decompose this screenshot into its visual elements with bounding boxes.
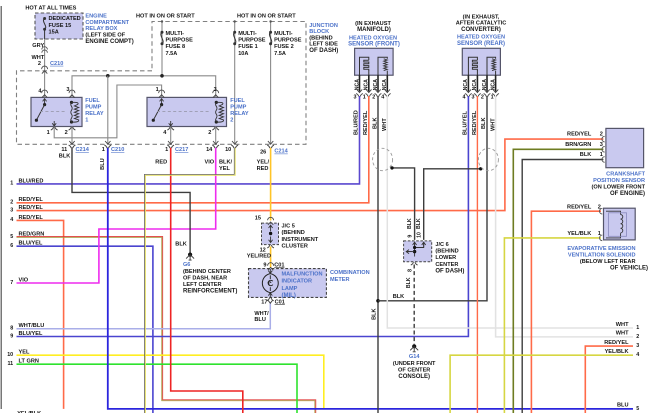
relay 2 coil — [215, 101, 218, 104]
wire front shield drain to J/C6 pin 9 — [392, 168, 415, 240]
svg-text:BLU: BLU — [100, 158, 106, 170]
svg-text:BLU/RED: BLU/RED — [19, 178, 44, 184]
O2 stub wire x=359.5 — [359, 75, 361, 91]
svg-text:FUSE 15: FUSE 15 — [49, 23, 72, 29]
J/C 5 connectors and internals — [268, 217, 274, 220]
svg-text:RED: RED — [155, 160, 167, 166]
svg-text:RED/YEL: RED/YEL — [567, 132, 592, 138]
svg-text:INSTRUMENT: INSTRUMENT — [282, 237, 319, 243]
svg-text:(LEFT SIDE OF: (LEFT SIDE OF — [85, 33, 125, 39]
svg-text:YEL/BLK: YEL/BLK — [605, 349, 629, 355]
svg-text:BLU/RED: BLU/RED — [354, 110, 360, 135]
svg-text:4: 4 — [463, 94, 466, 100]
wire fuse 8 drop — [161, 22, 163, 76]
svg-text:2: 2 — [208, 130, 211, 136]
engine compartment relay box enclosure (dashed) — [35, 13, 83, 39]
svg-text:3: 3 — [66, 87, 69, 93]
evap solenoid coil symbol — [606, 211, 621, 214]
svg-text:CONVERTER): CONVERTER) — [461, 27, 501, 33]
svg-text:(UNDER FRONT: (UNDER FRONT — [393, 361, 436, 367]
svg-text:BLK: BLK — [393, 294, 405, 300]
MIL connector pin17 — [267, 298, 274, 301]
svg-text:RED: RED — [257, 166, 269, 172]
svg-text:INDICATOR: INDICATOR — [282, 279, 313, 285]
svg-text:OF VEHICLE): OF VEHICLE) — [610, 265, 648, 271]
svg-text:(BEHIND: (BEHIND — [309, 35, 332, 41]
wire YEL/RED J/C5 to MIL — [270, 247, 272, 268]
svg-text:1: 1 — [363, 94, 366, 100]
top dashed entries — [161, 20, 163, 22]
svg-text:J/C 5: J/C 5 — [282, 223, 295, 229]
svg-text:PURPOSE: PURPOSE — [238, 38, 266, 44]
svg-text:(BELOW LEFT REAR: (BELOW LEFT REAR — [580, 259, 636, 265]
svg-text:COMPARTMENT: COMPARTMENT — [85, 20, 129, 26]
ground G6 — [188, 253, 192, 257]
wire rear shield drain to J/C6 pin 10 — [424, 169, 481, 240]
front O2 heater element and resistor — [360, 57, 369, 75]
svg-text:ENGINE: ENGINE — [85, 14, 107, 20]
svg-text:NCA: NCA — [364, 79, 370, 90]
svg-text:PUMP: PUMP — [230, 104, 246, 110]
svg-text:1: 1 — [47, 130, 50, 136]
page left border — [0, 6, 2, 409]
svg-text:YEL/BLK: YEL/BLK — [567, 231, 591, 237]
wire BLU/YEL pcm pin6 — [17, 246, 153, 413]
svg-text:NCA: NCA — [354, 79, 360, 90]
wire WHT/BLU pcm pin8 to MIL — [17, 302, 271, 329]
wire YEL/BLK evap solenoid pin1 — [504, 238, 601, 413]
svg-text:VENTILATION SOLENOID: VENTILATION SOLENOID — [568, 252, 636, 258]
wire RED/YEL to pcm right pin3 — [585, 346, 633, 413]
svg-text:3: 3 — [214, 87, 217, 93]
svg-text:YEL: YEL — [219, 166, 230, 172]
svg-text:1: 1 — [491, 94, 494, 100]
svg-text:(ON LOWER FRONT: (ON LOWER FRONT — [592, 184, 646, 190]
svg-text:8: 8 — [408, 269, 414, 272]
svg-text:ENGINE COMPT): ENGINE COMPT) — [85, 39, 133, 45]
svg-text:4: 4 — [381, 94, 384, 100]
svg-text:10A: 10A — [238, 51, 248, 57]
svg-text:7.5A: 7.5A — [166, 51, 178, 57]
wire dedicated fuse to relay 1 pin 4 — [44, 39, 46, 97]
svg-text:LEFT SIDE: LEFT SIDE — [309, 42, 338, 48]
MIL lamp symbol — [262, 274, 278, 293]
svg-text:C01: C01 — [275, 299, 285, 305]
svg-text:RED/YEL: RED/YEL — [567, 204, 592, 210]
svg-text:BLK: BLK — [580, 152, 592, 158]
svg-text:GRY: GRY — [32, 43, 44, 49]
svg-text:LAMP: LAMP — [282, 286, 298, 292]
wire relay2 pin2 drop VIO — [215, 127, 217, 145]
fuel pump relay 2 box — [147, 97, 227, 126]
svg-text:C214: C214 — [274, 149, 288, 155]
svg-text:EVAPORATIVE EMISSION: EVAPORATIVE EMISSION — [567, 246, 635, 252]
wire RED/YEL pcm pin2 to front O2 heater — [17, 96, 369, 203]
wire relay1 pin2 drop to C214 — [71, 127, 73, 145]
svg-text:RELAY: RELAY — [230, 111, 249, 117]
svg-text:26: 26 — [260, 149, 266, 155]
svg-text:3: 3 — [636, 343, 639, 349]
wire RED/GRN pcm pin5 (two-tone) — [17, 237, 316, 413]
evaporative emission ventilation solenoid box — [604, 208, 636, 240]
svg-text:C210: C210 — [50, 61, 63, 67]
svg-text:YEL/RED: YEL/RED — [247, 254, 271, 260]
svg-text:OF DASH): OF DASH) — [435, 269, 464, 275]
wire YEL pcm pin10 — [17, 355, 324, 409]
svg-text:BLU: BLU — [617, 403, 629, 409]
svg-text:1: 1 — [102, 147, 105, 153]
svg-text:REINFORCEMENT): REINFORCEMENT) — [183, 289, 237, 295]
svg-text:POSITION SENSOR: POSITION SENSOR — [593, 178, 645, 184]
O2 stub wire x=378.0 — [377, 75, 379, 91]
svg-text:RELAY: RELAY — [85, 111, 104, 117]
relay 1 switch — [43, 99, 47, 105]
svg-text:BLOCK: BLOCK — [309, 29, 329, 35]
coil supply rail y=75.8 — [72, 76, 216, 98]
svg-text:FUEL: FUEL — [230, 98, 245, 104]
svg-text:15A: 15A — [49, 30, 59, 36]
wire BLU fuel pump relay control C210 — [108, 148, 633, 409]
fuse 8 symbol — [161, 31, 164, 34]
svg-text:BLK: BLK — [416, 218, 422, 229]
svg-text:OF ENGINE): OF ENGINE) — [610, 191, 645, 197]
svg-text:2: 2 — [600, 132, 603, 138]
svg-text:SENSOR (REAR): SENSOR (REAR) — [457, 41, 505, 47]
svg-text:10: 10 — [7, 352, 13, 358]
svg-text:FUSE 8: FUSE 8 — [166, 44, 186, 50]
svg-text:YEL/: YEL/ — [257, 160, 270, 166]
svg-text:OF DASH): OF DASH) — [309, 48, 338, 54]
svg-text:CRANKSHAFT: CRANKSHAFT — [606, 171, 645, 177]
junction connector J/C 6 box — [404, 241, 432, 262]
svg-text:HOT IN ON OR START: HOT IN ON OR START — [136, 14, 195, 20]
svg-text:JUNCTION: JUNCTION — [309, 23, 338, 29]
svg-text:BLU/YEL: BLU/YEL — [19, 241, 44, 247]
evap solenoid pin connectors — [600, 208, 603, 214]
ground G14 — [412, 344, 416, 348]
svg-text:HEATED OXYGEN: HEATED OXYGEN — [457, 35, 505, 41]
wire BLU/YEL pcm pin9 to rear O2 signal — [17, 96, 469, 337]
svg-text:OF CENTER: OF CENTER — [398, 368, 430, 374]
svg-text:5: 5 — [636, 406, 639, 412]
svg-text:C214: C214 — [76, 147, 90, 153]
svg-text:3: 3 — [600, 142, 603, 148]
svg-text:9: 9 — [263, 262, 266, 268]
wire BRN/GRN crank sensor pin3 — [513, 149, 603, 413]
MIL connector pin9 — [268, 263, 274, 266]
wire rail to C210 BLU drop — [107, 76, 109, 145]
O2 stub wire x=477.4 — [476, 75, 478, 91]
svg-text:BRN/GRN: BRN/GRN — [565, 142, 591, 148]
svg-text:1: 1 — [85, 117, 88, 123]
svg-text:G14: G14 — [409, 354, 420, 360]
svg-text:WHT: WHT — [616, 331, 629, 337]
connector crossings at bottom dashed rail — [69, 141, 74, 144]
svg-text:BLK: BLK — [406, 277, 412, 288]
wire YEL/RED fuse2 to J/C5 — [270, 148, 272, 221]
svg-text:COMBINATION: COMBINATION — [330, 270, 370, 276]
shield front O2 (dashed ellipse) — [373, 148, 393, 170]
wire fuse 2 drop to pin 26 — [270, 22, 272, 145]
heated oxygen sensor front box — [355, 48, 394, 75]
wire BLU/RED pcm pin1 to front O2 signal — [17, 96, 360, 184]
rear O2 heater element and resistor — [468, 57, 477, 75]
svg-text:WHT: WHT — [616, 322, 629, 328]
svg-text:1: 1 — [165, 147, 168, 153]
svg-text:15: 15 — [255, 215, 261, 221]
svg-text:NCA: NCA — [472, 79, 478, 90]
wire YEL/BLK to pcm right pin4 — [450, 355, 633, 413]
fuse 15 dedicated — [43, 17, 46, 20]
svg-text:1: 1 — [600, 152, 603, 158]
wire BLK crank sensor pin1 — [522, 160, 603, 413]
svg-text:J/C 6: J/C 6 — [435, 242, 448, 248]
wire fuse 1 drop to pin 10 — [234, 22, 236, 145]
svg-text:C217: C217 — [175, 147, 188, 153]
svg-text:WHT: WHT — [490, 118, 496, 131]
svg-text:MANIFOLD): MANIFOLD) — [357, 27, 391, 33]
wire rear O2 RED/YEL heater — [476, 96, 478, 413]
svg-text:FUSE 1: FUSE 1 — [238, 44, 258, 50]
svg-text:RED/YEL: RED/YEL — [472, 110, 478, 135]
svg-text:RED/GRN: RED/GRN — [19, 231, 45, 237]
svg-text:3: 3 — [354, 94, 357, 100]
node rail-fuse8 — [160, 74, 164, 78]
shield rear O2 (dashed ellipse) — [478, 148, 498, 170]
fuse 2 symbol — [269, 31, 272, 34]
svg-text:NCA: NCA — [482, 79, 488, 90]
svg-text:(BEHIND: (BEHIND — [435, 249, 458, 255]
crankshaft position sensor box — [606, 128, 644, 167]
svg-text:7: 7 — [10, 280, 13, 286]
relay 1 coil — [70, 101, 73, 104]
svg-text:2: 2 — [10, 200, 13, 206]
svg-text:HOT IN ON OR START: HOT IN ON OR START — [237, 14, 296, 20]
svg-text:11: 11 — [61, 147, 67, 153]
svg-text:NCA: NCA — [373, 79, 379, 90]
junction block / relay box dashed outline — [17, 22, 307, 145]
relay 2 switch — [160, 99, 164, 105]
svg-text:(BEHIND: (BEHIND — [282, 230, 305, 236]
svg-text:NCA: NCA — [490, 79, 496, 90]
svg-text:G6: G6 — [183, 262, 190, 268]
svg-text:12: 12 — [260, 247, 266, 253]
svg-text:9: 9 — [10, 333, 13, 339]
svg-text:VIO: VIO — [19, 277, 29, 283]
svg-text:2: 2 — [65, 130, 68, 136]
svg-text:(BEHIND CENTER: (BEHIND CENTER — [183, 269, 231, 275]
svg-text:RED/YEL: RED/YEL — [19, 215, 44, 221]
wire front O2 BLK to pcm ground — [377, 96, 379, 413]
heated oxygen sensor rear box — [462, 48, 500, 75]
svg-text:2: 2 — [481, 94, 484, 100]
wire RED/YEL evap solenoid pin2 — [531, 211, 601, 413]
svg-text:BLK: BLK — [175, 241, 187, 247]
svg-text:RED/YEL: RED/YEL — [363, 110, 369, 135]
svg-text:CENTER: CENTER — [435, 262, 458, 268]
svg-text:BLK/: BLK/ — [219, 160, 232, 166]
svg-text:LEFT CENTER: LEFT CENTER — [183, 282, 222, 288]
svg-text:4: 4 — [10, 217, 13, 223]
svg-text:10: 10 — [417, 232, 423, 238]
wire relay2 pin4 drop to C217 — [170, 127, 172, 145]
svg-text:HEATED OXYGEN: HEATED OXYGEN — [349, 35, 397, 41]
svg-text:SENSOR (FRONT): SENSOR (FRONT) — [348, 42, 400, 48]
wire VIO pcm pin7 to relay 2 — [17, 148, 216, 284]
svg-text:C01: C01 — [274, 262, 284, 268]
svg-text:AFTER CATALYTIC: AFTER CATALYTIC — [456, 21, 507, 27]
malfunction indicator lamp box (combination meter) — [249, 269, 327, 298]
svg-text:PUMP: PUMP — [85, 104, 101, 110]
node rear shield drain — [479, 167, 482, 170]
O2 stub wire x=468.4 — [467, 75, 469, 91]
svg-text:CLUSTER: CLUSTER — [282, 244, 308, 250]
O2 stub wire x=368.8 — [368, 75, 370, 91]
svg-text:14: 14 — [206, 147, 213, 153]
svg-text:5: 5 — [10, 234, 13, 240]
svg-text:MALFUNCTION: MALFUNCTION — [282, 271, 323, 277]
svg-text:6: 6 — [10, 243, 13, 249]
svg-text:HOT AT ALL TIMES: HOT AT ALL TIMES — [25, 5, 76, 11]
svg-text:3: 3 — [472, 94, 475, 100]
node front shield drain — [390, 166, 393, 169]
svg-text:NCA: NCA — [382, 79, 388, 90]
svg-text:2: 2 — [372, 94, 375, 100]
svg-text:3: 3 — [10, 207, 13, 213]
O2 stub wire x=487.0 — [486, 75, 488, 91]
O2 stub wire x=495.6 — [495, 75, 497, 91]
svg-text:(IN EXHAUST,: (IN EXHAUST, — [463, 15, 500, 21]
svg-text:10: 10 — [225, 147, 231, 153]
svg-text:CONSOLE): CONSOLE) — [398, 374, 430, 380]
J/C 6 internals — [413, 242, 417, 247]
svg-text:(MIL): (MIL) — [282, 293, 296, 299]
svg-text:2: 2 — [38, 61, 41, 67]
svg-text:FUSE 2: FUSE 2 — [274, 44, 294, 50]
wire RED/YEL pcm pin3 to crank sensor — [17, 139, 604, 211]
svg-text:9: 9 — [407, 235, 413, 238]
svg-text:1: 1 — [598, 231, 601, 237]
svg-text:7.5A: 7.5A — [274, 51, 286, 57]
svg-text:BLK: BLK — [407, 218, 413, 229]
svg-text:RED/YEL: RED/YEL — [604, 340, 629, 346]
svg-text:4: 4 — [636, 352, 639, 358]
svg-text:1: 1 — [156, 87, 159, 93]
wire BLK J/C6 pin 8 to ground G14 (shield drain, dashed) — [413, 265, 415, 345]
wire BLK sensor-ground jumper to rear O2 BLK — [378, 96, 487, 301]
wire RED/YEL pcm pin4 stub — [17, 220, 64, 409]
crank sensor pin connectors — [602, 136, 605, 142]
svg-text:2: 2 — [636, 334, 639, 340]
svg-text:WHT: WHT — [382, 118, 388, 131]
svg-text:FUEL: FUEL — [85, 98, 100, 104]
svg-text:BLK: BLK — [372, 118, 378, 130]
svg-text:DEDICATED: DEDICATED — [49, 16, 81, 22]
wire front O2 WHT to pcm — [387, 96, 633, 328]
relay pin connectors below labels — [42, 90, 48, 93]
svg-text:LT GRN: LT GRN — [19, 359, 39, 365]
svg-text:BLU: BLU — [254, 317, 266, 323]
wire BLK relay1 pin2 to ground G6 — [72, 148, 190, 254]
svg-text:PURPOSE: PURPOSE — [274, 38, 302, 44]
svg-text:WHT/BLU: WHT/BLU — [19, 323, 45, 329]
svg-text:2: 2 — [230, 117, 233, 123]
node rail-BLU — [106, 74, 110, 78]
fuse 1 symbol — [233, 31, 236, 34]
connector C210 pin2 crossing (top) — [42, 66, 48, 69]
wire relay1 pin1 to relay2 pin1 link — [54, 85, 161, 138]
svg-text:VIO: VIO — [205, 160, 215, 166]
svg-text:RED/YEL: RED/YEL — [19, 205, 44, 211]
svg-text:OF DASH, NEAR: OF DASH, NEAR — [183, 276, 227, 282]
wire BLK/YEL fuse1 feed (two-tone) — [145, 148, 235, 413]
node front BLK junction — [376, 299, 380, 303]
svg-text:RELAY BOX: RELAY BOX — [85, 26, 117, 32]
svg-text:PURPOSE: PURPOSE — [166, 38, 194, 44]
svg-text:BLK: BLK — [59, 154, 71, 160]
svg-text:NCA: NCA — [463, 79, 469, 90]
svg-text:BLK: BLK — [481, 118, 487, 130]
wire RED fuel pump feed C217 — [171, 148, 243, 413]
svg-text:MULTI-: MULTI- — [274, 31, 293, 37]
wire rear O2 WHT to pcm — [496, 96, 633, 337]
svg-text:LOWER: LOWER — [435, 255, 456, 261]
svg-text:METER: METER — [330, 277, 350, 283]
junction connector J/C 5 box — [262, 223, 279, 245]
svg-text:MULTI-: MULTI- — [238, 31, 257, 37]
svg-text:8: 8 — [10, 326, 13, 332]
svg-text:RED/YEL: RED/YEL — [19, 197, 44, 203]
svg-text:(IN EXHAUST: (IN EXHAUST — [355, 21, 391, 27]
svg-text:2: 2 — [598, 204, 601, 210]
svg-text:11: 11 — [7, 361, 13, 367]
fuel pump relay 1 box — [31, 97, 82, 126]
svg-text:1: 1 — [636, 325, 639, 331]
svg-text:MULTI-: MULTI- — [166, 31, 185, 37]
svg-text:BLU/YEL: BLU/YEL — [463, 110, 469, 135]
svg-text:C210: C210 — [111, 147, 124, 153]
wire LT GRN pcm pin11 — [17, 364, 298, 413]
svg-text:17: 17 — [261, 299, 267, 305]
svg-text:YEL: YEL — [19, 350, 30, 356]
wire GRY from dedicated fuse — [42, 47, 48, 50]
O2 stub wire x=387.3 — [386, 75, 388, 91]
svg-text:BLK: BLK — [372, 308, 378, 320]
svg-text:BLU/YEL: BLU/YEL — [19, 331, 44, 337]
svg-text:1: 1 — [10, 181, 13, 187]
